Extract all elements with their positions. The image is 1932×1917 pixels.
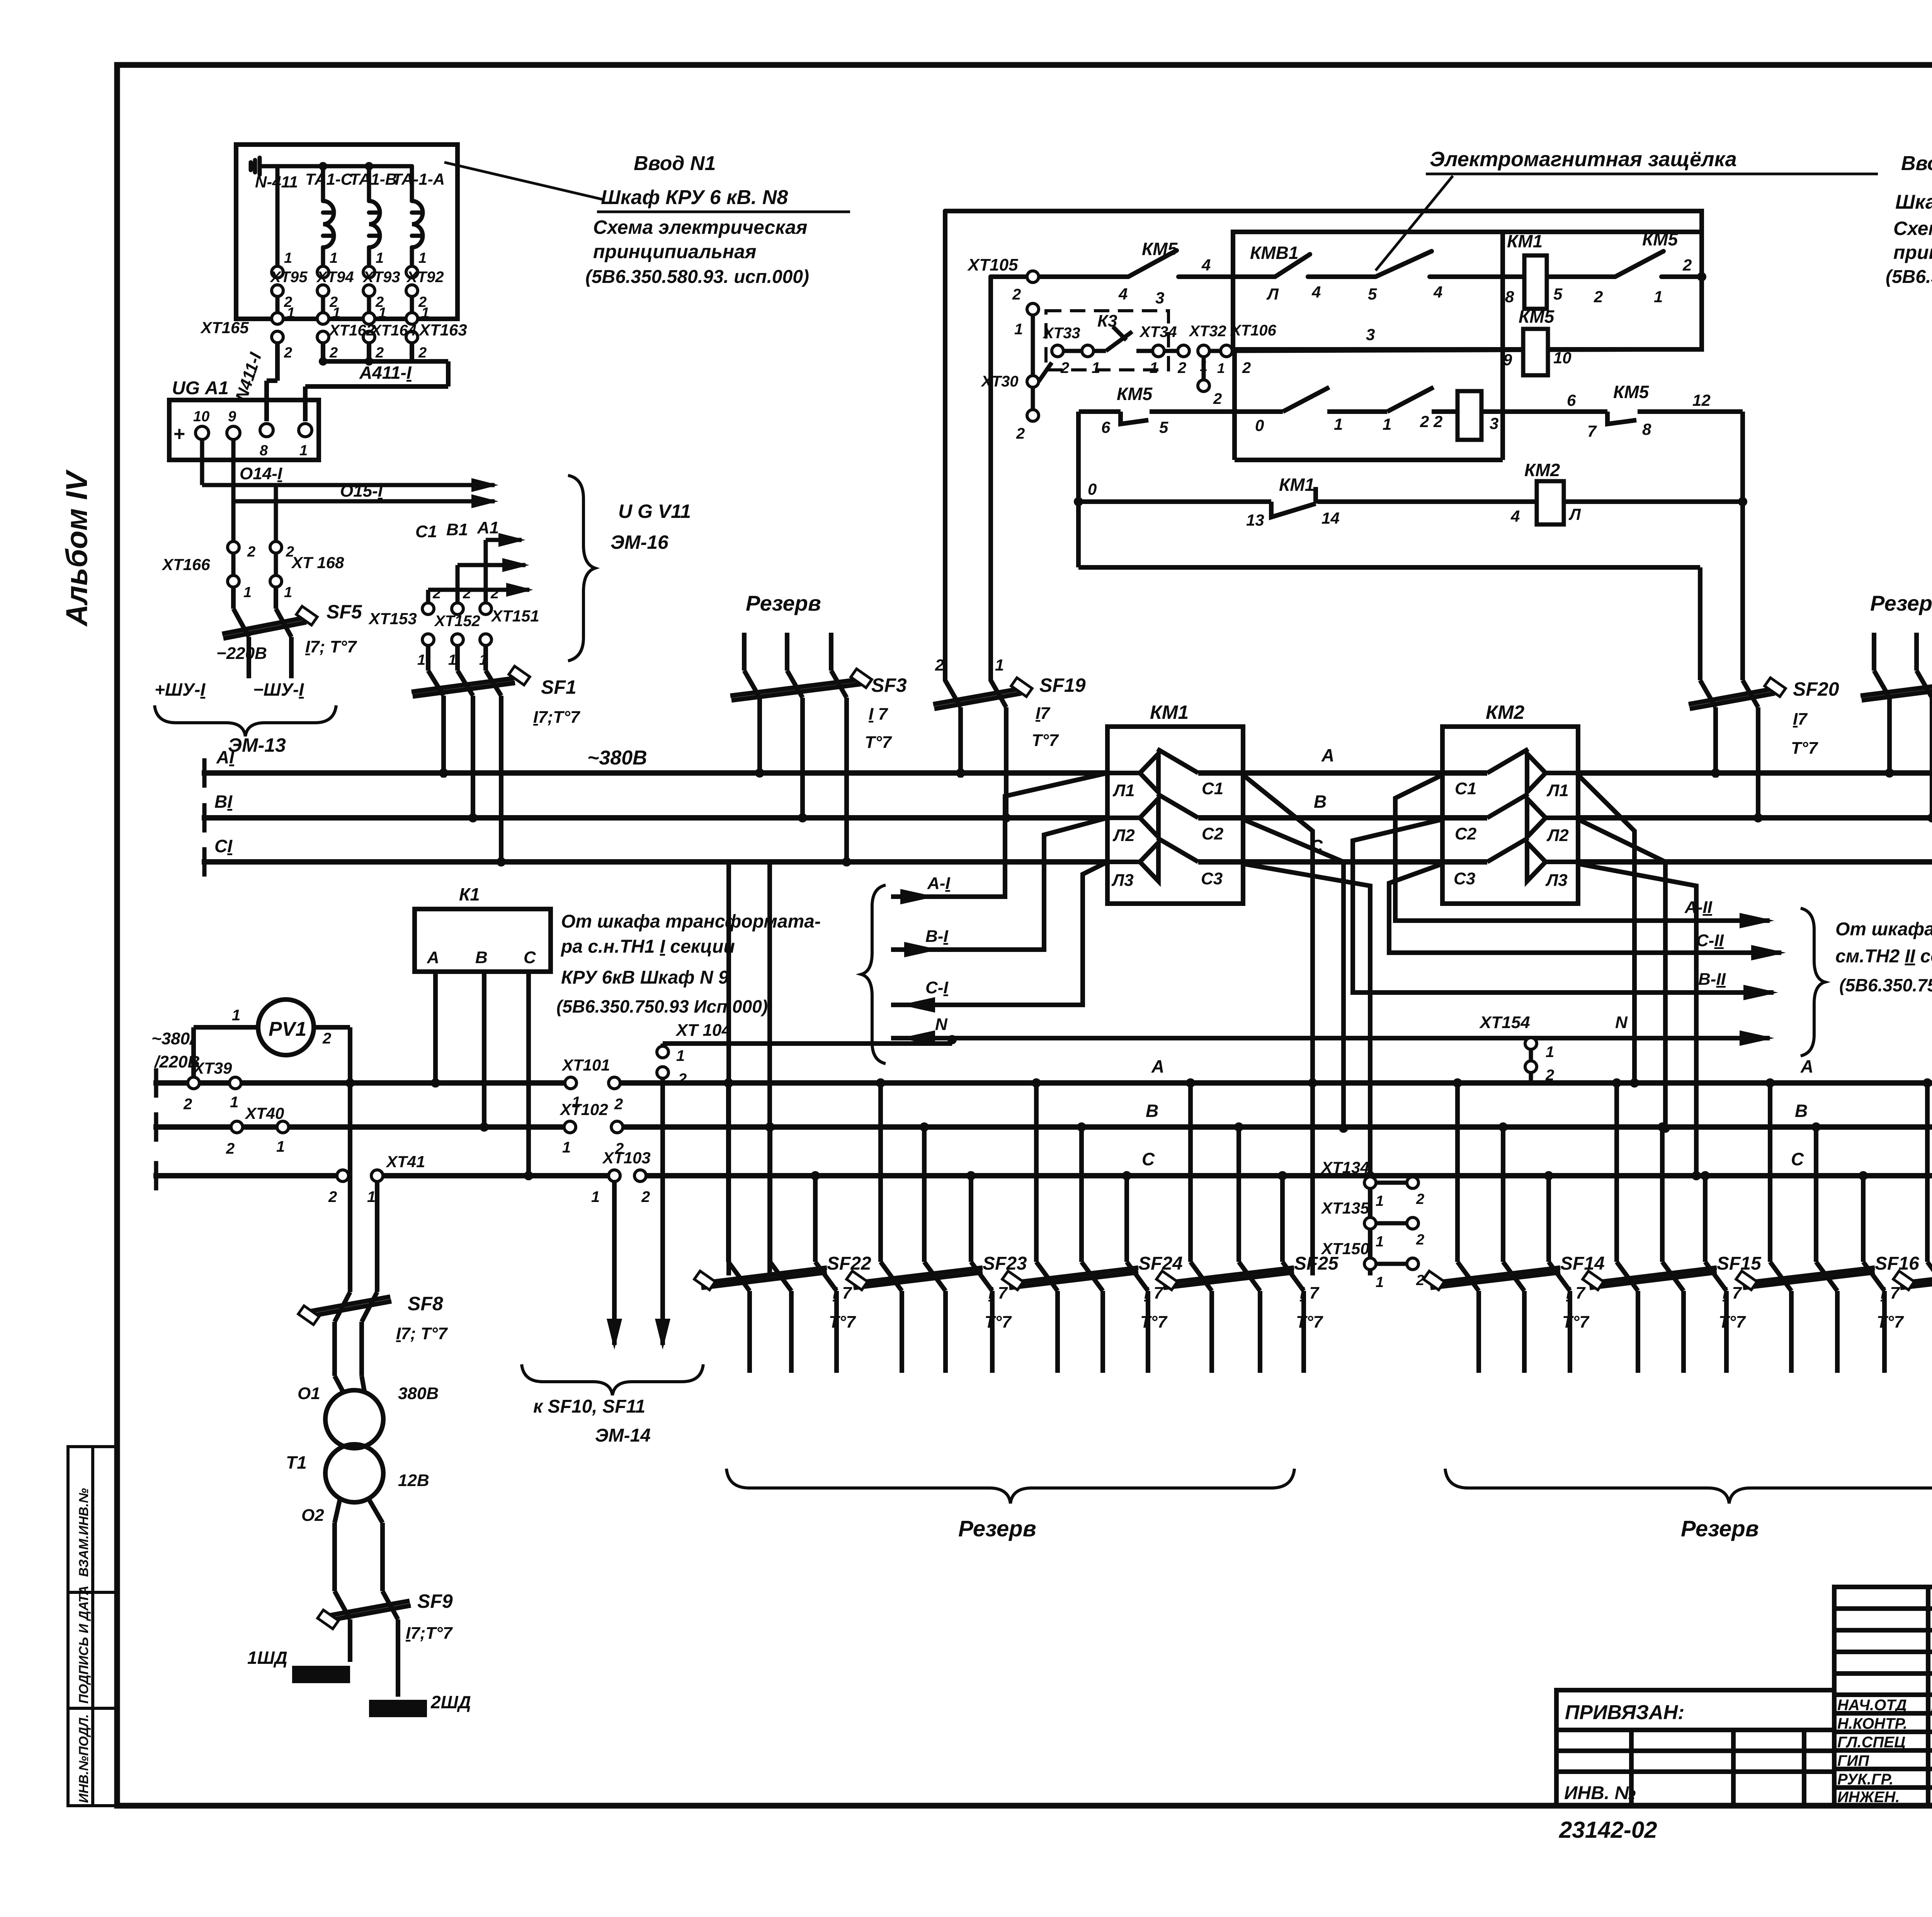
K1 wires to lower buses xyxy=(435,972,529,1176)
latch inner box xyxy=(1235,232,1503,460)
svg-text:КМ1: КМ1 xyxy=(1507,231,1543,251)
svg-text:SF5: SF5 xyxy=(327,601,362,623)
svg-text:13: 13 xyxy=(1246,511,1264,529)
svg-text:N: N xyxy=(1615,1013,1628,1032)
terminal chain XT134 xyxy=(1364,1177,1418,1188)
terminal XT40 xyxy=(231,1121,289,1133)
svg-text:ТА1-С: ТА1-С xyxy=(305,170,353,188)
svg-text:SF19: SF19 xyxy=(1039,674,1086,696)
svg-text:С: С xyxy=(1791,1149,1804,1169)
svg-text:К1: К1 xyxy=(459,884,480,904)
junction dot row4 right xyxy=(1697,272,1706,281)
svg-text:принципиальная: принципиальная xyxy=(593,241,756,262)
svg-text:ИНВ.№ПОДЛ.: ИНВ.№ПОДЛ. xyxy=(77,1714,91,1803)
KMB1 box xyxy=(1233,232,1702,349)
svg-text:3: 3 xyxy=(1155,289,1164,307)
svg-text:КРУ 6кВ Шкаф N 9: КРУ 6кВ Шкаф N 9 xyxy=(561,967,729,988)
svg-text:В: В xyxy=(1146,1101,1158,1121)
reserve group SF4 xyxy=(1861,633,1932,862)
svg-text:КМ5: КМ5 xyxy=(1642,229,1679,249)
svg-text:1: 1 xyxy=(299,443,308,459)
svg-text:2: 2 xyxy=(329,345,338,361)
svg-text:Резерв: Резерв xyxy=(958,1516,1036,1541)
breaker SF20 xyxy=(1689,680,1775,821)
wire XT103-2 down to arrow xyxy=(612,1182,617,1345)
svg-text:2: 2 xyxy=(284,345,292,361)
svg-text:В1: В1 xyxy=(446,520,468,539)
arrow B-I xyxy=(904,942,939,957)
terminal XT166 XT168 xyxy=(228,541,282,587)
svg-text:1: 1 xyxy=(1376,1234,1384,1250)
wire N-411 vertical xyxy=(276,166,280,267)
svg-text:ГЛ.СПЕЦ: ГЛ.СПЕЦ xyxy=(1837,1734,1905,1751)
svg-text:N-411: N-411 xyxy=(255,173,298,191)
svg-text:В-II: В-II xyxy=(1698,970,1726,989)
svg-text:12В: 12В xyxy=(398,1471,429,1490)
svg-text:4: 4 xyxy=(1510,507,1520,525)
breaker SF23 xyxy=(854,1083,992,1373)
svg-text:(5В6.350.750.93 Исп.000): (5В6.350.750.93 Исп.000) xyxy=(556,996,768,1016)
svg-text:Т°7: Т°7 xyxy=(1562,1313,1590,1331)
svg-text:В: В xyxy=(1795,1101,1808,1121)
lower bus C (y3042) xyxy=(156,1173,337,1178)
wire row3 (y908) with terminals xyxy=(1039,327,1702,381)
svg-text:2: 2 xyxy=(935,656,944,674)
breaker SF21 xyxy=(1900,1083,1932,1373)
svg-text:С3: С3 xyxy=(1201,869,1223,888)
svg-text:2: 2 xyxy=(1242,359,1251,376)
connector verticals upper C to lower buses xyxy=(729,862,770,1275)
svg-text:ХТ95: ХТ95 xyxy=(270,269,308,286)
svg-text:SF22: SF22 xyxy=(827,1253,871,1274)
svg-text:1: 1 xyxy=(1150,359,1158,376)
svg-text:ХТ134: ХТ134 xyxy=(1321,1158,1369,1176)
svg-text:2: 2 xyxy=(1177,359,1186,376)
terminal XT105 xyxy=(1027,271,1039,315)
curly brace EM-13 left xyxy=(155,705,336,736)
svg-text:см.ТН2 II секции КРУ 6 кВ Шка: см.ТН2 II секции КРУ 6 кВ Шкаф N14 xyxy=(1835,946,1932,967)
svg-text:Л1: Л1 xyxy=(1112,781,1135,800)
KM5 contact blade top xyxy=(1128,250,1177,277)
svg-text:к SF10, SF11: к SF10, SF11 xyxy=(533,1396,645,1417)
wire L2 down xyxy=(1578,819,1665,1128)
svg-text:2: 2 xyxy=(322,1030,331,1047)
relay K1 box xyxy=(415,909,551,972)
KM2 contact pole C xyxy=(1487,838,1578,881)
svg-text:2: 2 xyxy=(1416,1272,1424,1289)
svg-text:НАЧ.ОТД: НАЧ.ОТД xyxy=(1837,1697,1907,1714)
KM1 feeds from transformer TN1 (left fan) xyxy=(891,773,1107,1005)
svg-text:А1: А1 xyxy=(477,518,499,537)
svg-text:2: 2 xyxy=(328,1188,337,1205)
wire TA1-B vertical xyxy=(367,166,371,201)
leader line to Vvod N1 text xyxy=(444,162,603,199)
svg-text:СI: СI xyxy=(214,836,233,856)
terminal XT101 xyxy=(565,1077,620,1089)
CT coil TA1-B xyxy=(369,201,380,247)
svg-text:ра с.н.ТН1 I секции: ра с.н.ТН1 I секции xyxy=(560,936,735,957)
svg-text:Л1: Л1 xyxy=(1546,781,1569,800)
svg-text:1: 1 xyxy=(676,1047,685,1064)
svg-text:I 7: I 7 xyxy=(869,705,888,724)
svg-text:2: 2 xyxy=(1016,425,1025,442)
KM2 outputs to lower buses (right side fan) xyxy=(1578,775,1696,1176)
wire C-II riser xyxy=(1389,864,1781,953)
svg-text:А: А xyxy=(427,948,439,967)
svg-text:От шкафа трансформата-: От шкафа трансформата- xyxy=(561,911,821,932)
breaker SF25 xyxy=(1163,1083,1304,1373)
svg-text:Т°7: Т°7 xyxy=(865,733,892,752)
breaker SF16 xyxy=(1743,1083,1884,1373)
svg-text:1: 1 xyxy=(378,305,386,321)
svg-text:I 7: I 7 xyxy=(833,1284,852,1302)
wire A-I riser xyxy=(891,773,1107,897)
svg-text:Н.КОНТР.: Н.КОНТР. xyxy=(1837,1715,1907,1732)
wire second vertical to SF19 xyxy=(988,277,993,680)
svg-text:Т°7: Т°7 xyxy=(1032,731,1059,750)
arrow C-I xyxy=(900,997,935,1013)
svg-text:8: 8 xyxy=(1505,288,1514,306)
svg-text:ИНЖЕН.: ИНЖЕН. xyxy=(1837,1789,1900,1806)
svg-text:9: 9 xyxy=(228,409,236,425)
svg-text:7: 7 xyxy=(1587,422,1597,440)
svg-text:ТА-1-А: ТА-1-А xyxy=(392,170,445,188)
svg-text:0: 0 xyxy=(1255,416,1264,434)
svg-text:Шкаф КРУ 6 кВ. N 15: Шкаф КРУ 6 кВ. N 15 xyxy=(1895,191,1932,213)
KM2 contact pole A xyxy=(1487,749,1578,792)
svg-text:1: 1 xyxy=(1092,359,1100,376)
svg-text:ХТ105: ХТ105 xyxy=(967,255,1018,274)
KM2 feeds from transformer TN2 (left side risers) xyxy=(1353,775,1781,993)
KM1 contact pole C xyxy=(1107,838,1198,881)
wire left vertical to SF19 xyxy=(943,211,947,680)
svg-text:I7: I7 xyxy=(1036,704,1051,723)
wire O14-I with arrow xyxy=(202,439,495,485)
svg-text:ХТ106: ХТ106 xyxy=(1230,322,1277,339)
breaker SF15 xyxy=(1590,1083,1726,1373)
svg-text:−220В: −220В xyxy=(216,644,267,663)
svg-text:2: 2 xyxy=(641,1188,650,1205)
svg-text:1: 1 xyxy=(1383,415,1391,433)
svg-text:ЭМ-14: ЭМ-14 xyxy=(595,1425,651,1446)
svg-text:I7; Т°7: I7; Т°7 xyxy=(305,637,357,656)
wire row KM5 6-5 / latch contacts (y1065) xyxy=(1079,387,1743,502)
K3 dashed box xyxy=(1046,311,1168,370)
terminal XT41 xyxy=(337,1170,383,1182)
breaker SF5 xyxy=(222,587,306,678)
svg-text:SF16: SF16 xyxy=(1875,1253,1919,1274)
bus end ticks left xyxy=(204,758,1932,877)
svg-text:2: 2 xyxy=(226,1140,235,1157)
svg-text:Альбом IV: Альбом IV xyxy=(60,469,94,627)
svg-text:С1: С1 xyxy=(1455,779,1476,798)
wires from terminals to A411 bus xyxy=(267,343,448,421)
svg-text:ХТ162: ХТ162 xyxy=(328,322,375,339)
svg-text:ИНВ. №: ИНВ. № xyxy=(1564,1783,1636,1803)
arrow A-II xyxy=(1740,913,1774,928)
svg-text:I 7: I 7 xyxy=(1144,1284,1164,1302)
svg-text:1: 1 xyxy=(591,1188,600,1205)
transformer T1 xyxy=(325,1376,383,1591)
svg-text:От шкафа трансформатора: От шкафа трансформатора xyxy=(1835,919,1932,940)
terminal XT102 xyxy=(564,1121,623,1133)
KM5 contact blade right (2-1) xyxy=(1615,251,1663,277)
svg-text:Л: Л xyxy=(1568,505,1581,523)
svg-text:1: 1 xyxy=(562,1139,571,1156)
svg-text:ХТ101: ХТ101 xyxy=(561,1056,610,1074)
svg-text:2: 2 xyxy=(463,586,471,602)
svg-text:О2: О2 xyxy=(301,1506,324,1525)
svg-text:UG А1: UG А1 xyxy=(172,378,229,398)
terminal chain XT135 xyxy=(1364,1217,1418,1229)
svg-text:8: 8 xyxy=(260,443,268,459)
arrows from C1 B1 A1 to UGV11 xyxy=(428,540,529,603)
svg-text:I 7: I 7 xyxy=(1300,1284,1320,1302)
svg-text:КМ2: КМ2 xyxy=(1524,460,1560,480)
svg-text:SF8: SF8 xyxy=(408,1293,443,1314)
svg-text:I 7: I 7 xyxy=(1723,1284,1742,1302)
svg-text:I 7: I 7 xyxy=(1881,1284,1900,1302)
svg-text:КМ5: КМ5 xyxy=(1142,239,1178,259)
signature rows text xyxy=(1837,1697,1932,1806)
lower bus end ticks xyxy=(154,1068,158,1190)
svg-text:С1: С1 xyxy=(415,522,437,541)
UG A1 box xyxy=(169,400,319,460)
svg-text:ХТ32: ХТ32 xyxy=(1189,323,1226,340)
svg-text:U G V11: U G V11 xyxy=(618,501,691,522)
svg-text:1: 1 xyxy=(276,1138,285,1155)
wire A-II riser xyxy=(1395,775,1770,921)
arrows k SF10 SF11 xyxy=(607,1319,622,1350)
svg-text:О14-I: О14-I xyxy=(240,464,282,483)
svg-text:КМ5: КМ5 xyxy=(1519,306,1555,327)
svg-text:1: 1 xyxy=(448,652,456,668)
svg-text:ХТ152: ХТ152 xyxy=(434,613,480,630)
svg-text:Т°7: Т°7 xyxy=(1719,1313,1746,1331)
svg-text:2: 2 xyxy=(490,586,499,602)
lower bus A (y2802) xyxy=(156,1080,188,1086)
svg-text:1: 1 xyxy=(1376,1193,1384,1209)
svg-text:2: 2 xyxy=(614,1096,623,1113)
svg-text:ХТ39: ХТ39 xyxy=(192,1059,232,1077)
svg-text:С3: С3 xyxy=(1454,869,1475,888)
svg-text:~380/: ~380/ xyxy=(151,1029,196,1048)
leader from zashchelka xyxy=(1376,176,1453,271)
svg-text:1: 1 xyxy=(1014,321,1023,338)
lower bus B (y2916) xyxy=(156,1124,231,1130)
svg-text:С-I: С-I xyxy=(925,978,948,997)
svg-text:1: 1 xyxy=(284,250,292,266)
KM1 outputs to lower buses (right fan) xyxy=(1243,775,1370,1275)
arrow C-II xyxy=(1751,945,1786,960)
svg-text:I 7: I 7 xyxy=(1566,1284,1586,1302)
svg-text:Т°7: Т°7 xyxy=(985,1313,1012,1331)
svg-text:Схема электрическая: Схема электрическая xyxy=(593,216,807,238)
svg-text:ХТ93: ХТ93 xyxy=(362,269,400,286)
svg-text:С: С xyxy=(1142,1149,1155,1169)
svg-text:2: 2 xyxy=(1012,286,1021,303)
svg-text:SF1: SF1 xyxy=(541,676,577,698)
svg-text:SF14: SF14 xyxy=(1560,1253,1605,1274)
svg-text:В: В xyxy=(475,948,488,967)
svg-text:1: 1 xyxy=(995,656,1004,674)
ground bar 2ShD xyxy=(369,1700,427,1717)
KM1 coil in row4 xyxy=(1524,255,1547,309)
svg-text:ТА1-В: ТА1-В xyxy=(350,170,397,188)
svg-text:N: N xyxy=(935,1015,948,1034)
svg-text:5: 5 xyxy=(1553,285,1563,303)
svg-text:6: 6 xyxy=(1101,418,1111,436)
svg-text:1: 1 xyxy=(1654,288,1663,306)
svg-text:PV1: PV1 xyxy=(269,1018,306,1040)
svg-text:I7; Т°7: I7; Т°7 xyxy=(396,1324,448,1343)
wire XT41 to SF8 right pole xyxy=(375,1182,379,1292)
bus stubs inside KM1/KM2 boxes xyxy=(1198,773,1487,862)
svg-text:ХТ 104: ХТ 104 xyxy=(675,1021,731,1040)
svg-text:ХТ41: ХТ41 xyxy=(386,1153,425,1171)
wire C-I riser xyxy=(891,862,1107,1005)
KM2 aux coil in row (2-3) xyxy=(1458,391,1481,440)
svg-text:Электромагнитная защёлка: Электромагнитная защёлка xyxy=(1430,148,1737,171)
vertical 2791 down xyxy=(1076,412,1081,567)
svg-text:ХТ34: ХТ34 xyxy=(1139,323,1177,340)
K3 contact blade xyxy=(1106,332,1132,351)
svg-text:1: 1 xyxy=(1546,1044,1554,1061)
ground bar 1ShD xyxy=(292,1666,350,1683)
svg-text:1: 1 xyxy=(1376,1274,1384,1290)
CT coil TA-1-A xyxy=(412,201,423,247)
svg-text:ХТ 168: ХТ 168 xyxy=(291,553,344,572)
svg-text:О15-I: О15-I xyxy=(340,482,383,501)
svg-text:SF23: SF23 xyxy=(983,1253,1027,1274)
svg-text:С-II: С-II xyxy=(1696,931,1724,950)
svg-text:(5В6.350.750.93 исп. 000): (5В6.350.750.93 исп. 000) xyxy=(1839,975,1932,995)
svg-text:ХТ150: ХТ150 xyxy=(1321,1239,1369,1258)
svg-text:1: 1 xyxy=(1334,415,1343,433)
svg-text:ХТ153: ХТ153 xyxy=(368,609,417,628)
svg-text:2: 2 xyxy=(678,1071,687,1088)
svg-text:380В: 380В xyxy=(398,1384,439,1403)
svg-text:14: 14 xyxy=(1321,509,1340,527)
voltmeter PV1 xyxy=(194,999,350,1292)
svg-text:I7: I7 xyxy=(1793,710,1808,729)
breaker SF14 xyxy=(1430,1083,1570,1373)
svg-text:Т°7: Т°7 xyxy=(1140,1313,1168,1331)
svg-text:5: 5 xyxy=(1368,285,1377,303)
terminal XT39 xyxy=(188,1077,241,1089)
svg-text:8: 8 xyxy=(1642,420,1651,438)
svg-text:0: 0 xyxy=(1088,480,1097,498)
svg-text:О1: О1 xyxy=(298,1384,320,1403)
svg-text:Резерв: Резерв xyxy=(746,591,821,615)
left margin strip xyxy=(68,1447,117,1806)
svg-text:В-I: В-I xyxy=(925,927,948,946)
svg-text:−ШУ-I: −ШУ-I xyxy=(253,679,304,700)
svg-text:6: 6 xyxy=(1567,391,1576,409)
svg-text:Л: Л xyxy=(1266,285,1279,303)
svg-text:Резерв: Резерв xyxy=(1870,591,1932,615)
reserve group SF3 xyxy=(730,633,861,862)
terminals XT95 XT94 XT93 XT92 xyxy=(272,266,418,296)
svg-text:2: 2 xyxy=(1416,1191,1424,1207)
curly brace Rezerv lower right xyxy=(1445,1469,1932,1503)
svg-text:SF24: SF24 xyxy=(1138,1253,1183,1274)
arrow A-I xyxy=(900,889,935,904)
KM5 coil 2 xyxy=(1523,329,1548,375)
wire O15-I with arrow xyxy=(233,439,495,501)
curly brace right group xyxy=(1801,908,1825,1056)
svg-text:ХТ103: ХТ103 xyxy=(602,1149,651,1167)
KMB1 inner contact blade L-4 xyxy=(1275,254,1310,277)
svg-text:2: 2 xyxy=(1416,1232,1424,1248)
svg-text:(5В6.350.580.93. исп.000): (5В6.350.580.93. исп.000) xyxy=(585,267,809,287)
svg-text:КМВ1: КМВ1 xyxy=(1250,243,1298,263)
svg-text:ХТ163: ХТ163 xyxy=(418,321,467,339)
svg-text:С2: С2 xyxy=(1455,824,1477,843)
CT cabinet box N8 xyxy=(236,145,457,319)
wire XT105 down to XT30 xyxy=(1031,315,1035,376)
svg-text:АI: АI xyxy=(216,747,235,767)
svg-text:РУК.ГР.: РУК.ГР. xyxy=(1837,1771,1893,1788)
terminal XT30 xyxy=(1027,376,1039,421)
svg-text:1: 1 xyxy=(376,250,384,266)
bus C-I / C-II (y2230) xyxy=(204,859,1107,865)
svg-text:1: 1 xyxy=(421,305,429,321)
wire row 4 (y716) xyxy=(991,274,1128,279)
svg-text:КМ5: КМ5 xyxy=(1613,382,1650,402)
curly brace Rezerv lower left xyxy=(726,1469,1294,1503)
svg-text:ЭМ-13: ЭМ-13 xyxy=(228,734,286,756)
svg-text:1: 1 xyxy=(417,652,425,668)
svg-text:2: 2 xyxy=(418,345,427,361)
svg-text:2ШД: 2ШД xyxy=(430,1692,471,1712)
bus B-I / B-II (y2116) xyxy=(204,815,1107,821)
svg-text:ХТ164: ХТ164 xyxy=(370,322,417,339)
svg-text:1ШД: 1ШД xyxy=(247,1648,287,1668)
svg-text:Л2: Л2 xyxy=(1112,826,1135,845)
svg-text:С: С xyxy=(524,948,536,967)
curly brace k SF10 SF11 xyxy=(522,1364,703,1395)
svg-text:1: 1 xyxy=(243,584,252,601)
svg-text:12: 12 xyxy=(1692,391,1711,409)
wire B-II riser xyxy=(1353,819,1774,993)
svg-text:4: 4 xyxy=(1201,256,1211,274)
svg-text:~380В: ~380В xyxy=(587,747,647,769)
svg-text:принципиальная: принципиальная xyxy=(1893,242,1932,263)
KM2 contact pole B xyxy=(1487,794,1578,837)
svg-text:2: 2 xyxy=(1213,390,1222,407)
svg-text:1: 1 xyxy=(367,1188,376,1205)
svg-text:Т°7: Т°7 xyxy=(1296,1313,1323,1331)
svg-text:ХТ92: ХТ92 xyxy=(406,269,444,286)
svg-text:Л3: Л3 xyxy=(1545,871,1568,890)
wire XT104 down to arrow (k SF10) xyxy=(660,1078,665,1345)
svg-text:А-I: А-I xyxy=(927,874,950,893)
junction dot at ground header xyxy=(319,162,327,170)
svg-text:А: А xyxy=(1151,1056,1164,1076)
svg-text:Шкаф КРУ 6 кВ. N8: Шкаф КРУ 6 кВ. N8 xyxy=(601,186,788,209)
curly brace UGV11 xyxy=(568,475,595,661)
svg-text:КМ1: КМ1 xyxy=(1279,475,1315,495)
svg-text:SF15: SF15 xyxy=(1717,1253,1762,1274)
svg-text:ХТ33: ХТ33 xyxy=(1043,325,1080,342)
svg-text:5: 5 xyxy=(1159,418,1168,436)
wire N with arrow xyxy=(891,1036,1770,1040)
svg-text:1: 1 xyxy=(418,250,427,266)
bus A-I / A-II (y2000) xyxy=(204,770,1107,776)
svg-text:1: 1 xyxy=(1217,360,1225,376)
KM1 13-14 contact xyxy=(1271,502,1316,517)
